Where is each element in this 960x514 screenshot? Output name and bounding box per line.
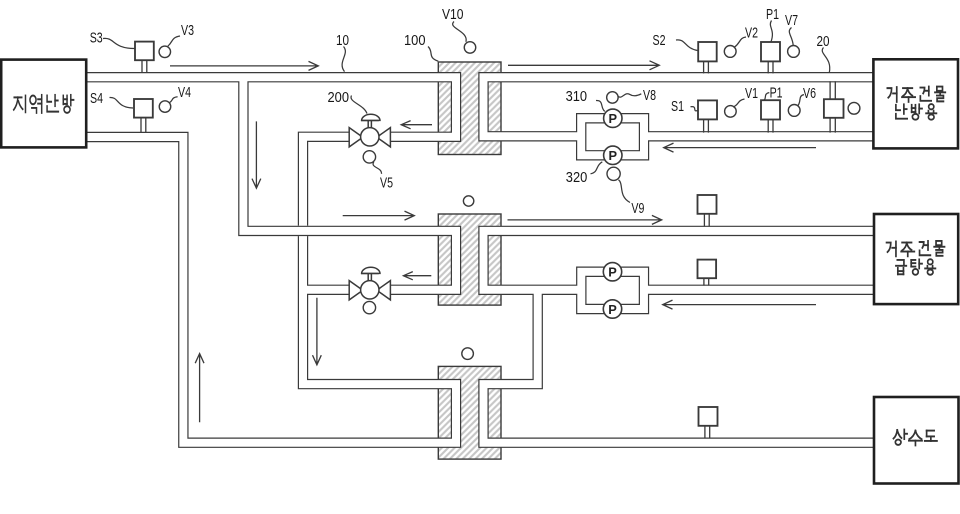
wire: pump loop 2 to hot water box return xyxy=(642,285,874,295)
arrow: HX1 to building supply xyxy=(508,61,659,70)
pipe interior: loop1 to box xyxy=(642,132,874,140)
pipe interior: primary return xyxy=(86,137,456,443)
sensor circle V8 xyxy=(607,92,619,104)
pipe interior: branch to HX2 xyxy=(243,77,456,290)
sensor on city water row xyxy=(699,407,718,438)
box residential hot water xyxy=(874,214,958,304)
sensor circle at pump 320 xyxy=(607,167,620,180)
sensor circle V6 xyxy=(788,105,800,117)
leader V7 xyxy=(789,28,793,46)
svg-text:V9: V9 xyxy=(631,201,644,217)
component 20 (with through stem) xyxy=(824,81,844,132)
wire: city water riser from row D down through HX3 to suppy box 4 xyxy=(484,290,875,443)
wire: branch to HX2 and to valve 2 xyxy=(243,77,456,290)
leader V4 xyxy=(170,97,178,103)
arrow: into valve 200 left xyxy=(401,121,432,129)
svg-text:P1: P1 xyxy=(770,86,783,102)
wire: primary return long path box1-bottom to HX3 and up to row C xyxy=(86,137,456,443)
pump loop2 top pump xyxy=(603,263,621,281)
sensor circle above HX3 xyxy=(462,348,474,360)
text geojugeonmul-1 xyxy=(887,87,945,102)
svg-text:V8: V8 xyxy=(643,88,656,104)
valve 2 (hot water) xyxy=(349,267,390,300)
leader P1 return xyxy=(764,93,770,100)
leader S1 xyxy=(691,107,698,111)
leader V6 xyxy=(798,95,804,106)
leader squiggles group xyxy=(103,21,830,203)
sensor circle right of 20 xyxy=(848,102,860,114)
svg-text:V6: V6 xyxy=(803,86,816,102)
svg-text:V3: V3 xyxy=(181,23,194,39)
sensor on hot water return row xyxy=(698,260,717,286)
box city water xyxy=(874,397,959,484)
pump loop2 bottom pump xyxy=(603,300,621,318)
pipe interior: supply main xyxy=(86,77,456,137)
arrow: to HX2 right xyxy=(343,211,415,220)
leader V5 xyxy=(373,162,381,174)
arrow: HX2 to hot water supply right xyxy=(508,215,662,224)
wire: HX1 right circuit supply and return to pump loop xyxy=(484,77,875,136)
svg-text:V4: V4 xyxy=(178,85,191,101)
leader 200 xyxy=(351,96,367,114)
sensor circle V3 xyxy=(159,46,171,58)
pipe interior: HX1 right circuit xyxy=(484,77,875,136)
box residential heating xyxy=(873,59,958,148)
text jiyeok-nanbang xyxy=(14,95,74,113)
svg-text:10: 10 xyxy=(336,33,349,49)
pipe interior: valve 2 left stub xyxy=(300,286,349,294)
sensor S2 xyxy=(698,42,717,73)
wire: valve 200 left port to bypass vertical down to row C xyxy=(303,137,349,226)
leader 100 xyxy=(428,47,438,62)
sensor circle above HX2 xyxy=(463,196,473,206)
pipe interior: pump loop 1 xyxy=(581,118,644,155)
svg-text:P: P xyxy=(608,302,617,317)
leader S2 xyxy=(676,40,698,51)
sensor circle V5 xyxy=(363,151,375,163)
leader P1 top xyxy=(770,21,772,42)
leader S4 xyxy=(110,97,134,108)
wire: pump loop 1 to building box return xyxy=(642,131,874,141)
sensor circle V10 xyxy=(464,42,476,54)
wire: HX2 right circuit supply and return to pump loop 2 xyxy=(484,231,875,290)
svg-text:V1: V1 xyxy=(745,86,758,102)
leader V8 xyxy=(618,94,641,97)
text nanbangyong xyxy=(896,104,937,120)
pipe interior: pump loop 2 xyxy=(581,272,644,309)
arrow: return upward xyxy=(195,354,204,423)
svg-text:P: P xyxy=(609,111,618,126)
svg-text:P1: P1 xyxy=(766,7,779,23)
leader 10 xyxy=(342,47,345,72)
svg-text:320: 320 xyxy=(566,170,588,186)
sensor circle V4 xyxy=(159,101,171,113)
svg-text:S2: S2 xyxy=(653,33,666,49)
svg-text:100: 100 xyxy=(404,33,426,49)
sensor S4 xyxy=(134,99,153,133)
leader V10 xyxy=(453,22,467,42)
pump loop 1 rectangle xyxy=(581,118,644,155)
leader 20 xyxy=(822,48,830,73)
sensor circle V2 xyxy=(724,46,736,58)
svg-text:S4: S4 xyxy=(90,91,103,107)
svg-text:200: 200 xyxy=(328,90,350,106)
pipe interior: loop2 to box xyxy=(642,286,874,294)
sensor P1 return xyxy=(761,100,780,132)
pipe interior: bypass vertical upper xyxy=(303,137,349,226)
pipe interior: city water riser xyxy=(484,290,875,443)
text sangsudo xyxy=(893,430,936,446)
text geojugeonmul-2 xyxy=(887,241,945,256)
arrow: branch downward xyxy=(252,121,261,188)
pump 310 xyxy=(604,109,622,127)
sensor on hot water supply row xyxy=(698,195,717,227)
pipe interior: HX2 right circuit xyxy=(484,231,875,290)
leader V2 xyxy=(734,37,746,47)
arrow: bypass downward xyxy=(313,298,322,365)
box district heating xyxy=(1,60,86,148)
leader 310 xyxy=(596,100,605,111)
heat exchanger 100 (HX1 block) xyxy=(438,62,501,155)
leader V1 xyxy=(733,99,745,107)
pump loop 2 rectangle xyxy=(581,272,644,309)
svg-text:P: P xyxy=(609,148,618,163)
svg-text:310: 310 xyxy=(566,89,588,105)
svg-text:P: P xyxy=(608,265,617,280)
svg-text:S3: S3 xyxy=(90,31,103,47)
arrow: building return left xyxy=(664,143,816,152)
svg-text:V2: V2 xyxy=(745,26,758,42)
sensor circle V7 xyxy=(788,46,800,58)
svg-text:V5: V5 xyxy=(380,175,393,191)
svg-text:V7: V7 xyxy=(785,13,798,29)
heat exchanger HX3 block xyxy=(438,366,501,459)
leader V3 xyxy=(168,36,180,46)
valve 200 xyxy=(349,114,390,147)
text geuptangyong xyxy=(896,259,935,275)
arrow: supply main right xyxy=(170,61,318,70)
pump 320 xyxy=(604,146,622,164)
leader 320 xyxy=(591,162,603,174)
leader V9 xyxy=(619,180,631,203)
arrow: hot water return left xyxy=(663,300,816,309)
svg-text:S1: S1 xyxy=(671,99,684,115)
sensor S1 xyxy=(698,100,717,132)
arrow: into valve 2 left xyxy=(403,272,431,280)
wire: valve 2 left port stub xyxy=(300,285,349,295)
heat exchanger HX2 block xyxy=(438,214,501,305)
svg-text:20: 20 xyxy=(817,34,830,50)
wire pass 2: pipe interiors xyxy=(86,77,874,443)
svg-text:V10: V10 xyxy=(442,7,464,23)
sensor S3 xyxy=(135,42,154,73)
sensor circle V1 xyxy=(725,106,737,118)
sensor circle below valve 2 xyxy=(363,301,375,313)
sensor P1 top xyxy=(761,42,780,73)
wire pass 1: pipe wall strokes xyxy=(86,77,874,443)
wire: supply main from district heating through HX1 to valve 200 xyxy=(86,77,456,137)
leader S3 xyxy=(103,38,135,48)
